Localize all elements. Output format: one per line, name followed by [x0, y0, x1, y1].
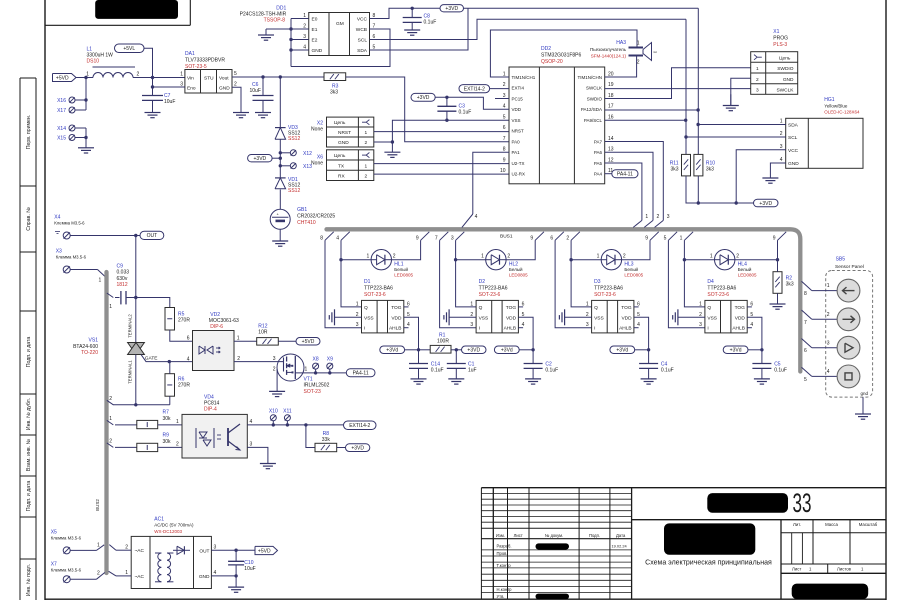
resistor R12 [257, 324, 279, 346]
svg-text:5: 5 [503, 114, 506, 120]
svg-text:Клемма М3.5-6: Клемма М3.5-6 [54, 221, 85, 226]
svg-text:2: 2 [623, 254, 626, 260]
wire triac T2 [135, 298, 137, 343]
wire DA1 Eno [151, 78, 185, 89]
svg-text:2: 2 [273, 367, 276, 373]
svg-text:GB1: GB1 [297, 207, 307, 213]
svg-text:AHLB: AHLB [504, 326, 517, 332]
svg-text:Vout: Vout [219, 76, 229, 82]
svg-text:AHLB: AHLB [619, 326, 632, 332]
svg-text:Подп.: Подп. [589, 533, 600, 538]
svg-text:1: 1 [367, 254, 370, 260]
svg-text:0.1uF: 0.1uF [545, 368, 558, 374]
svg-text:3: 3 [586, 322, 589, 328]
test point X12 [279, 150, 313, 157]
svg-text:Белый: Белый [509, 266, 523, 272]
bus tap line 7 to panel [802, 310, 838, 326]
svg-text:STU: STU [204, 76, 214, 82]
svg-text:DA1: DA1 [185, 51, 195, 57]
svg-text:+3VD: +3VD [254, 156, 267, 162]
svg-text:1: 1 [756, 66, 759, 72]
svg-text:Q: Q [364, 305, 368, 311]
wire VD4 pin4 row [247, 423, 343, 426]
svg-text:4: 4 [475, 214, 478, 220]
net label +3VD at C3 [411, 93, 435, 101]
connector X6 labels [311, 154, 323, 166]
capacitor C6 [250, 77, 274, 113]
svg-text:1: 1 [237, 336, 240, 342]
svg-text:30k: 30k [163, 416, 172, 422]
svg-text:3: 3 [273, 356, 276, 362]
title block row Utv [497, 594, 570, 600]
svg-text:0.1uF: 0.1uF [459, 110, 472, 116]
LED HL1 [367, 250, 414, 278]
svg-text:None: None [311, 127, 323, 133]
svg-text:GATE: GATE [145, 356, 158, 362]
test point X15 [57, 135, 86, 142]
svg-text:1: 1 [645, 214, 648, 220]
svg-text:LED0805: LED0805 [509, 273, 528, 278]
bus entry line 1 top [633, 214, 648, 227]
wire D2 VDD down [518, 317, 534, 351]
svg-text:I: I [707, 326, 708, 332]
svg-text:Взам. инв. №: Взам. инв. № [26, 438, 32, 471]
left column label Vzam inv No [26, 438, 32, 471]
svg-text:6: 6 [187, 336, 190, 342]
svg-text:1: 1 [780, 119, 783, 125]
svg-text:R8: R8 [323, 431, 330, 437]
svg-text:GND: GND [788, 161, 799, 167]
wire HL1 anode [341, 259, 371, 261]
svg-text:SWDIO: SWDIO [587, 96, 603, 101]
bus entry line 2 [566, 232, 579, 242]
bus tap line 8 to panel [802, 281, 838, 297]
wire SB5 to ground [862, 397, 864, 414]
wire GB1 to ground [279, 229, 281, 241]
svg-text:3k3: 3k3 [670, 167, 678, 173]
net label +3VD rail [754, 199, 779, 207]
wire VT1 drain row [295, 371, 346, 374]
svg-text:1: 1 [356, 301, 359, 307]
ground C14 [411, 379, 427, 384]
svg-text:PA12/SDA: PA12/SDA [581, 107, 602, 112]
svg-text:PA9/SCL: PA9/SCL [584, 118, 603, 123]
svg-text:Цепь: Цепь [334, 120, 346, 126]
svg-text:SOT-23: SOT-23 [304, 389, 321, 395]
svg-text:4: 4 [187, 357, 190, 363]
svg-text:~AC: ~AC [135, 548, 145, 554]
svg-text:PA5: PA5 [594, 161, 603, 166]
resistor R9 [137, 433, 171, 452]
svg-text:2: 2 [566, 236, 569, 242]
wire R7 to VD4 [158, 424, 182, 426]
diode VD1 [275, 177, 300, 194]
svg-text:3: 3 [827, 340, 830, 346]
svg-text:1: 1 [365, 163, 368, 169]
svg-text:1: 1 [109, 304, 112, 310]
svg-text:NRST: NRST [338, 130, 351, 136]
junction C8 [411, 7, 414, 10]
svg-text:4: 4 [780, 157, 783, 163]
wire VD2 pin2 to VT1 gate [234, 361, 284, 363]
svg-text:10uF: 10uF [164, 99, 175, 105]
stub D2 AHLB [518, 327, 523, 329]
wire VD4 pin3 to ground [247, 447, 268, 463]
resistor R8 [315, 431, 337, 452]
svg-text:D4: D4 [707, 279, 714, 285]
svg-text:10uF: 10uF [244, 566, 255, 572]
wire VD1 to GB1 [279, 190, 281, 210]
resistor R11 [670, 154, 691, 176]
svg-text:BTA24-600: BTA24-600 [73, 344, 98, 350]
svg-text:1: 1 [97, 542, 100, 548]
bus tap line 6 to panel [802, 339, 838, 355]
svg-text:Q: Q [594, 305, 598, 311]
triac VS1 terminal2 label [128, 314, 133, 338]
terminal X4 labels [54, 215, 85, 226]
net label EXTI14-2 (VD4) [344, 421, 377, 430]
svg-text:WX-DC12003: WX-DC12003 [154, 529, 182, 534]
terminal X4 [55, 232, 70, 240]
svg-text:D2: D2 [479, 279, 486, 285]
bus entry triac bottom [107, 396, 114, 405]
stub D4 AHLB [747, 327, 752, 329]
title block list row [792, 566, 864, 571]
bus BUS2 [104, 272, 108, 573]
connector X2 box [327, 117, 374, 147]
svg-text:9: 9 [645, 236, 648, 242]
bus entry AC1 pin2 [109, 545, 131, 551]
svg-text:E0: E0 [312, 17, 318, 23]
svg-text:1: 1 [699, 301, 702, 307]
svg-text:270R: 270R [178, 383, 190, 389]
wire X16/X17 junction [84, 78, 87, 111]
svg-text:8: 8 [804, 291, 807, 297]
svg-text:5: 5 [234, 71, 237, 77]
svg-text:CR2032/CR2025: CR2032/CR2025 [297, 214, 335, 220]
svg-text:VSS: VSS [512, 118, 521, 123]
svg-text:19.02.24: 19.02.24 [612, 544, 628, 549]
touch sensor D2 labels [479, 279, 508, 298]
bus BUS2 label [95, 499, 100, 511]
svg-text:X10: X10 [269, 409, 278, 415]
net label +3Vd ch4 [723, 346, 762, 354]
svg-text:Sensor Panel: Sensor Panel [835, 264, 864, 270]
svg-text:2: 2 [637, 60, 640, 66]
stub D1 AHLB [404, 327, 409, 329]
svg-text:TTP223-BA6: TTP223-BA6 [364, 286, 393, 292]
wire bus line 8 to D1 pin I [325, 240, 362, 327]
sensor panel button 3 [837, 336, 860, 359]
bus entry line 4 [336, 232, 349, 242]
regulator DA1 labels [185, 51, 225, 70]
svg-text:SCL: SCL [358, 38, 368, 44]
svg-text:Лит.: Лит. [793, 522, 801, 527]
wire HL4 anode [684, 259, 714, 261]
optocoupler VD4 box [176, 414, 252, 458]
ground C7 [145, 113, 161, 118]
chip DD2 labels [541, 46, 582, 65]
left column label Perv primen [26, 115, 32, 150]
wire X14/X15 to ground [84, 128, 87, 148]
touch sensor D3 labels [594, 279, 623, 298]
svg-text:PA1: PA1 [512, 150, 521, 155]
svg-text:0.1uF: 0.1uF [424, 20, 437, 26]
svg-text:R9: R9 [163, 433, 170, 439]
svg-text:None: None [311, 160, 323, 166]
svg-text:PLS-3: PLS-3 [773, 42, 787, 48]
junction C6 [261, 75, 264, 78]
chip DD2 box [500, 67, 614, 184]
test point X9 [327, 357, 333, 373]
left column label Sprav No [26, 207, 32, 231]
svg-text:NRST: NRST [512, 129, 525, 134]
wire DD1 ground branch [266, 29, 291, 35]
svg-text:BUS2: BUS2 [95, 499, 100, 511]
bus entry line 9 ch2 [530, 232, 543, 242]
svg-text:AHLB: AHLB [389, 326, 402, 332]
LED HL4 [710, 250, 757, 278]
title block code 33 [793, 488, 812, 518]
svg-text:VSS: VSS [707, 315, 717, 321]
ground HG1 [762, 178, 778, 183]
svg-text:SOT-23-6: SOT-23-6 [479, 292, 501, 298]
ground GB1 [272, 241, 288, 246]
svg-text:2: 2 [97, 571, 100, 577]
stub D3 AHLB [634, 327, 639, 329]
svg-text:1uF: 1uF [468, 368, 477, 374]
svg-text:Масса: Масса [825, 522, 838, 527]
left frame column boxes [20, 78, 36, 600]
inductor L1 [86, 47, 139, 78]
wire X6 RX to DD2 [374, 173, 509, 175]
svg-text:QSOP-20: QSOP-20 [541, 59, 563, 65]
svg-text:SS12: SS12 [288, 188, 300, 194]
wire R9 to VD4 [158, 446, 182, 448]
svg-text:2: 2 [827, 312, 830, 318]
ground I2C mid [730, 94, 732, 105]
svg-text:SOT-23-6: SOT-23-6 [594, 292, 616, 298]
touch sensor D4 labels [707, 279, 736, 298]
bus entry line 9 ch4 [773, 232, 786, 242]
svg-text:X8: X8 [313, 357, 319, 363]
test point X13 [279, 163, 313, 170]
transistor VT1 [273, 354, 308, 381]
svg-text:+5VD: +5VD [302, 339, 315, 345]
wire VD2 pin1 to R12 [234, 340, 257, 342]
svg-text:2: 2 [137, 72, 140, 78]
svg-text:1: 1 [180, 72, 183, 78]
wire SDA vertical [696, 8, 699, 154]
svg-text:Vin: Vin [187, 76, 194, 82]
title block grid [481, 488, 886, 600]
svg-text:9: 9 [416, 236, 419, 242]
svg-text:3: 3 [667, 214, 670, 220]
svg-text:GM: GM [336, 21, 344, 27]
svg-text:D3: D3 [594, 279, 601, 285]
svg-text:DS10: DS10 [87, 59, 100, 65]
svg-text:Белый: Белый [394, 266, 408, 272]
wire AC1 OUT [211, 549, 255, 552]
wire bus line 7 to D2 pin I [440, 240, 477, 327]
net tag +5VD (output) [255, 546, 278, 554]
svg-text:+3VD: +3VD [417, 95, 430, 101]
svg-text:3: 3 [756, 88, 759, 94]
svg-text:Лист: Лист [514, 533, 523, 538]
terminal X3 [63, 266, 70, 273]
svg-text:SWCLK: SWCLK [586, 86, 602, 91]
wire SCL line top [370, 19, 687, 39]
svg-text:VDD: VDD [506, 315, 517, 321]
svg-text:0.1uF: 0.1uF [661, 368, 674, 374]
title block name redacted [664, 523, 755, 554]
svg-text:4: 4 [827, 369, 830, 375]
svg-text:17: 17 [608, 104, 614, 110]
svg-text:SWDIO: SWDIO [777, 66, 794, 72]
svg-text:Разраб.: Разраб. [497, 543, 512, 548]
svg-text:Q: Q [707, 305, 711, 311]
capacitor C14 [409, 350, 444, 379]
title block row Razrab [497, 543, 628, 549]
svg-text:2: 2 [109, 396, 112, 402]
wire bus to R7 [115, 424, 137, 426]
wire HL3 anode [571, 259, 601, 261]
net label EXTI14-2 (DD2) [459, 85, 509, 93]
wire DD2 PA1 down [473, 152, 509, 214]
title block header texts [496, 533, 626, 538]
wire +3Vd to R1 [419, 349, 431, 351]
chip DD1 box [303, 13, 375, 56]
svg-text:VDD: VDD [391, 315, 402, 321]
sensor panel gnd label [860, 391, 868, 396]
svg-text:X15: X15 [57, 136, 66, 142]
svg-text:I: I [479, 326, 480, 332]
wire +5VL down [144, 48, 153, 77]
svg-text:BUS1: BUS1 [500, 233, 513, 239]
wire bus to R9 [115, 446, 137, 448]
svg-text:SDA: SDA [357, 48, 368, 54]
svg-text:OLED-IC-128X64: OLED-IC-128X64 [824, 110, 860, 115]
bus tap line 5 to panel [802, 367, 838, 383]
regulator DA1 box [180, 70, 237, 94]
svg-text:VSS: VSS [364, 315, 374, 321]
wire SCL to HG1 [686, 136, 786, 138]
svg-text:Клемма М3.5-6: Клемма М3.5-6 [56, 255, 87, 260]
svg-text:3: 3 [250, 442, 253, 448]
svg-text:TTP223-BA6: TTP223-BA6 [594, 286, 623, 292]
net label +3VD mid [248, 155, 282, 163]
svg-text:+3VD: +3VD [445, 6, 458, 12]
svg-text:10R: 10R [258, 330, 268, 336]
stub D3 TOG [634, 306, 639, 308]
bus entry line 3 top [655, 214, 670, 227]
svg-text:Дата: Дата [616, 533, 626, 538]
wire DD1 left pins bus [289, 19, 308, 67]
svg-text:270R: 270R [178, 318, 190, 324]
wire SDA to HG1 [698, 124, 786, 126]
svg-text:gnd: gnd [860, 391, 868, 396]
touch sensor D2 box [470, 300, 524, 333]
svg-text:9: 9 [503, 157, 506, 163]
bus entry line 4 top [462, 214, 478, 227]
svg-text:GND: GND [312, 48, 323, 54]
terminal X7 [63, 576, 70, 583]
svg-text:C9: C9 [117, 263, 124, 269]
svg-text:630v: 630v [117, 276, 128, 282]
optocoupler VD2 box [187, 331, 241, 371]
svg-text:X17: X17 [57, 108, 66, 114]
bus entry line 5 [664, 232, 677, 242]
svg-text:HG1: HG1 [824, 97, 835, 103]
ground D3 VSS [559, 309, 564, 325]
svg-text:Подп. и дата: Подп. и дата [26, 481, 32, 512]
wire D2 VSS to ground [449, 316, 476, 318]
svg-text:+5VD: +5VD [56, 75, 69, 81]
wire Vout to VD3 [279, 77, 281, 128]
svg-text:5: 5 [804, 377, 807, 383]
svg-text:1: 1 [86, 72, 89, 78]
svg-text:VDD: VDD [621, 315, 632, 321]
wire DD2 PA7 down [605, 142, 664, 221]
wire D1 VSS to ground [335, 316, 362, 318]
wire R12 to +5VD [278, 340, 296, 342]
svg-text:X1: X1 [773, 29, 779, 35]
display HG1 box [780, 118, 863, 168]
svg-text:VDD: VDD [735, 315, 746, 321]
wire HL4 cathode to bus [735, 240, 779, 261]
title block schema name [645, 560, 772, 567]
wire bus line 2 to D3 pin Q [569, 240, 591, 307]
svg-text:№ докум.: № докум. [545, 533, 563, 538]
svg-text:~AC: ~AC [135, 574, 145, 580]
svg-text:+3VD: +3VD [467, 348, 480, 354]
svg-text:100R: 100R [437, 339, 449, 345]
svg-text:TOG: TOG [506, 305, 517, 311]
svg-text:Инв. № дубл.: Инв. № дубл. [26, 398, 32, 430]
wire R8 to +3VD [337, 447, 346, 449]
svg-text:1812: 1812 [117, 282, 128, 288]
bus entry C9 row [107, 293, 114, 310]
bus entry line 7 [435, 232, 448, 242]
svg-text:LED0805: LED0805 [738, 273, 757, 278]
wire OUT down to triac [134, 236, 137, 300]
svg-text:CHT410: CHT410 [297, 220, 316, 226]
wire DD2 VSS to ground [392, 120, 509, 152]
net label +5VL [115, 44, 145, 53]
svg-text:PA0: PA0 [512, 139, 521, 144]
svg-text:+5VL: +5VL [123, 46, 135, 52]
terminal X3 labels [56, 249, 87, 260]
net label +3VD top [440, 5, 464, 12]
net label +5VD mid [296, 338, 320, 346]
bus BUS1 [327, 229, 801, 371]
svg-text:1: 1 [597, 254, 600, 260]
wire HL2 cathode to bus [506, 240, 535, 259]
svg-text:Масштаб: Масштаб [859, 522, 878, 527]
svg-text:GND: GND [219, 86, 230, 92]
svg-text:VSS: VSS [594, 315, 604, 321]
capacitor C5 [752, 350, 787, 379]
svg-text:Цепь: Цепь [779, 56, 791, 62]
svg-text:PA6: PA6 [594, 150, 603, 155]
capacitor C7 [142, 78, 175, 113]
svg-text:SB5: SB5 [836, 257, 846, 263]
net label OUT [140, 231, 164, 239]
svg-text:Eno: Eno [187, 86, 196, 92]
svg-text:TOG: TOG [621, 305, 632, 311]
ground SB5 [855, 414, 871, 419]
svg-text:1: 1 [637, 41, 640, 47]
